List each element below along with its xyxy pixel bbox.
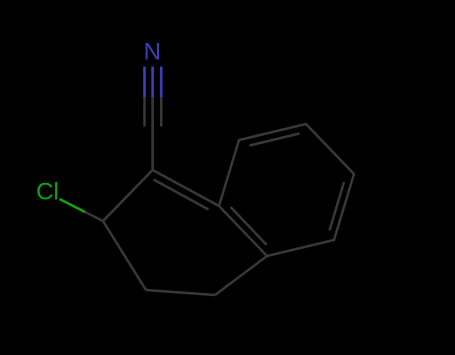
wire: ring inner double line right (R-BR) [330,182,345,231]
wire: triple bond gray halves [143,97,162,127]
wire: bond C2-CH2 [103,170,153,221]
benzene ring outline [219,124,354,256]
wire: ring inner double line bottom-left (B-ipso) [231,207,267,245]
wire: triple bond blue halves [143,67,162,98]
svg-text:N: N [144,39,161,66]
wire: single bond C1-C2 [151,126,154,172]
wire: bond CH2-Cl gray half [83,211,103,221]
wire: bond CH2-Cl green half [60,199,86,212]
wire: double bond C2=C3 second line [154,180,209,210]
wire: left ring bond C4a-C8a [215,256,267,295]
wire: double bond C2=C3 main line [153,170,219,206]
wire: left ring bond C4-C4a [146,290,215,295]
nitrile triple bond C1#N (three vertical lines, N-half blue, C-half gray) [143,67,162,127]
wire: left ring bond C3-C4 [103,221,146,290]
wire: ring inner double line top (TL-T) [250,134,300,146]
svg-text:Cl: Cl [36,179,59,206]
